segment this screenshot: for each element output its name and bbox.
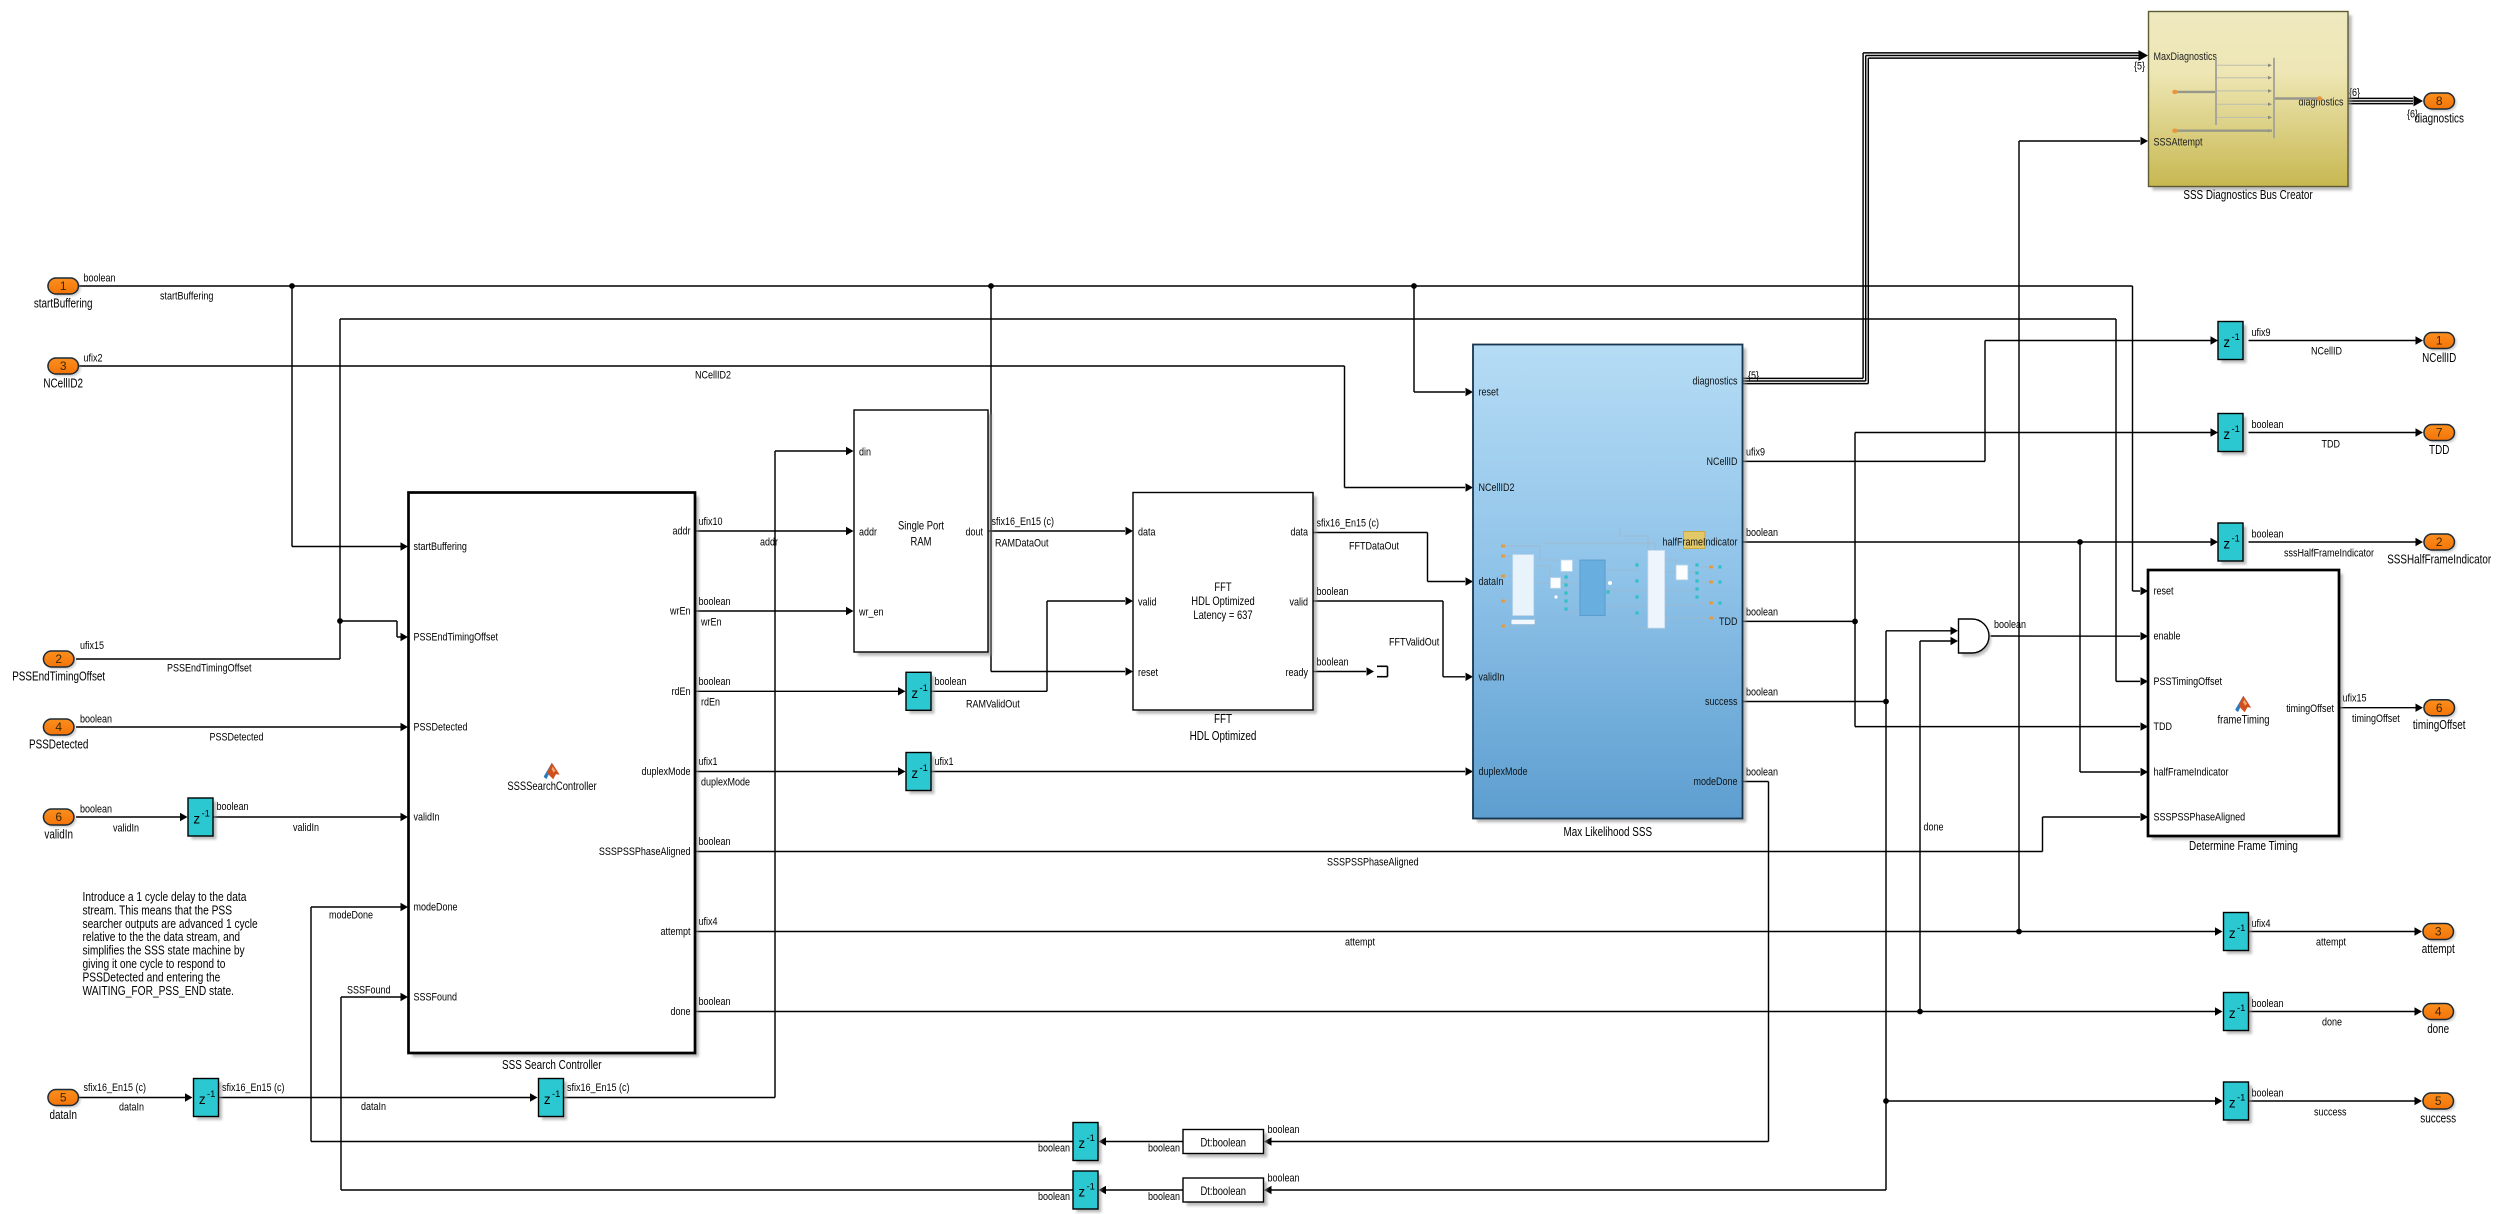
svg-text:6: 6 xyxy=(2436,701,2443,715)
svg-text:wrEn: wrEn xyxy=(669,606,690,618)
svg-text:z: z xyxy=(2223,537,2230,552)
svg-text:SSSPSSPhaseAligned: SSSPSSPhaseAligned xyxy=(2154,812,2246,824)
svg-text:boolean: boolean xyxy=(1268,1173,1300,1185)
svg-text:boolean: boolean xyxy=(2252,1088,2284,1100)
svg-text:ufix9: ufix9 xyxy=(1746,446,1765,458)
svg-text:NCellID: NCellID xyxy=(1707,456,1738,468)
svg-text:ufix15: ufix15 xyxy=(80,640,104,652)
wire duplexMode from delay to Max Likelihood SSS xyxy=(931,767,1473,775)
wire done from SSS Search Controller to delay and AND gate xyxy=(695,637,2223,1016)
wire RAMValidOut from delay to FFT valid xyxy=(931,597,1133,692)
svg-text:dataIn: dataIn xyxy=(49,1108,77,1122)
svg-text:WAITING_FOR_PSS_END state.: WAITING_FOR_PSS_END state. xyxy=(83,983,235,998)
wire startBuffering net from Inport 1 xyxy=(79,286,2148,676)
svg-text:reset: reset xyxy=(1479,387,1500,399)
svg-text:2: 2 xyxy=(2436,535,2443,549)
svg-text:3: 3 xyxy=(60,359,67,373)
svg-text:Determine Frame Timing: Determine Frame Timing xyxy=(2189,839,2298,853)
svg-text:modeDone: modeDone xyxy=(414,902,458,914)
wire NCellID from MLS to delay xyxy=(1743,336,2219,461)
wire PSSEndTimingOffset from Inport 2 xyxy=(76,319,2148,686)
svg-text:boolean: boolean xyxy=(2252,419,2284,431)
svg-text:NCellID: NCellID xyxy=(2311,346,2342,358)
svg-text:wr_en: wr_en xyxy=(858,607,883,619)
svg-text:valid: valid xyxy=(1138,597,1157,609)
svg-text:1: 1 xyxy=(60,279,67,293)
svg-text:boolean: boolean xyxy=(935,676,967,688)
Outport 7 TDD xyxy=(2424,425,2457,458)
svg-text:halfFrameIndicator: halfFrameIndicator xyxy=(1663,537,1738,549)
wire from first Dt:boolean to its delay xyxy=(1099,1137,1184,1145)
svg-text:sfix16_En15 (c): sfix16_En15 (c) xyxy=(992,516,1055,528)
svg-text:sfix16_En15 (c): sfix16_En15 (c) xyxy=(567,1082,630,1094)
svg-text:5: 5 xyxy=(2435,1094,2442,1108)
svg-text:FFTValidOut: FFTValidOut xyxy=(1389,637,1440,649)
svg-text:sssHalfFrameIndicator: sssHalfFrameIndicator xyxy=(2284,548,2374,560)
svg-text:boolean: boolean xyxy=(1746,527,1778,539)
junction halfFrameIndicator branch xyxy=(2077,539,2083,545)
svg-text:PSSDetected: PSSDetected xyxy=(29,738,88,752)
svg-text:boolean: boolean xyxy=(84,273,116,285)
svg-text:ufix9: ufix9 xyxy=(2252,327,2271,339)
svg-text:boolean: boolean xyxy=(1148,1143,1180,1155)
svg-text:3: 3 xyxy=(2435,925,2442,939)
svg-text:Single Port: Single Port xyxy=(898,519,945,533)
svg-text:z: z xyxy=(2229,1006,2236,1021)
svg-text:addr: addr xyxy=(859,527,877,539)
svg-text:enable: enable xyxy=(2154,631,2181,643)
delay on rdEn (RAMValidOut) xyxy=(909,676,934,714)
delay 2 on dataIn xyxy=(542,1082,567,1120)
svg-text:SSSFound: SSSFound xyxy=(414,992,458,1004)
svg-text:boolean: boolean xyxy=(699,596,731,608)
svg-text:SSS Diagnostics Bus Creator: SSS Diagnostics Bus Creator xyxy=(2183,188,2312,202)
subsystem Determine Frame Timing xyxy=(2148,570,2343,840)
svg-text:sfix16_En15 (c): sfix16_En15 (c) xyxy=(222,1082,285,1094)
wire modeDone from MLS to Dt:boolean feedback xyxy=(1264,782,1769,1146)
wire dataIn from second delay up to RAM din xyxy=(564,447,854,1098)
svg-text:boolean: boolean xyxy=(1317,586,1349,598)
delay on attempt xyxy=(2227,916,2252,954)
delay on modeDone feedback xyxy=(1076,1126,1101,1164)
svg-text:diagnostics: diagnostics xyxy=(1693,376,1738,388)
delay on success xyxy=(2227,1085,2252,1123)
svg-text:-1: -1 xyxy=(2237,1093,2245,1104)
svg-text:validIn: validIn xyxy=(414,812,440,824)
Outport 5 success xyxy=(2420,1093,2456,1126)
svg-text:halfFrameIndicator: halfFrameIndicator xyxy=(2154,767,2229,779)
svg-text:FFT: FFT xyxy=(1214,580,1231,594)
wire from AND gate to Determine Frame Timing enable xyxy=(1991,632,2149,640)
svg-text:FFT: FFT xyxy=(1214,712,1232,726)
delay on TDD xyxy=(2221,417,2246,455)
svg-text:boolean: boolean xyxy=(1746,687,1778,699)
block Dt:boolean (modeDone data type conversion) xyxy=(1183,1130,1267,1158)
delay on SSSFound feedback xyxy=(1076,1174,1101,1212)
svg-text:duplexMode: duplexMode xyxy=(1479,766,1528,778)
svg-text:{5}: {5} xyxy=(1748,370,1759,382)
svg-text:din: din xyxy=(859,447,871,459)
wire attempt from SSS Search Controller to delay and SSS Diagnostics Bus Creator xyxy=(695,137,2223,936)
svg-text:PSSEndTimingOffset: PSSEndTimingOffset xyxy=(414,632,499,644)
delay on validIn xyxy=(191,801,216,839)
wire validIn from Inport 6 to delay xyxy=(76,813,188,821)
Outport 8 diagnostics xyxy=(2414,93,2464,126)
svg-text:boolean: boolean xyxy=(2252,998,2284,1010)
svg-text:7: 7 xyxy=(2436,426,2443,440)
wire success from delay to Outport 5 xyxy=(2249,1097,2423,1105)
svg-text:SSSSearchController: SSSSearchController xyxy=(507,779,596,793)
svg-text:done: done xyxy=(1924,822,1944,834)
wire NCellID2 from Inport 3 to Max Likelihood SSS xyxy=(79,366,1473,492)
svg-text:-1: -1 xyxy=(207,1089,215,1100)
svg-text:z: z xyxy=(2229,926,2236,941)
svg-text:FFTDataOut: FFTDataOut xyxy=(1349,541,1400,553)
Outport 3 attempt xyxy=(2422,924,2456,957)
svg-text:TDD: TDD xyxy=(2154,721,2173,733)
svg-text:rdEn: rdEn xyxy=(701,697,720,709)
junction TDD branch xyxy=(1852,619,1858,625)
svg-text:attempt: attempt xyxy=(2316,937,2347,949)
wire from second Dt:boolean to its delay xyxy=(1099,1186,1184,1194)
svg-text:ufix15: ufix15 xyxy=(2343,693,2367,705)
svg-text:boolean: boolean xyxy=(1746,606,1778,618)
svg-text:-1: -1 xyxy=(2237,923,2245,934)
svg-text:attempt: attempt xyxy=(1345,937,1376,949)
svg-text:data: data xyxy=(1138,527,1156,539)
svg-text:SSSPSSPhaseAligned: SSSPSSPhaseAligned xyxy=(599,846,691,858)
svg-text:-1: -1 xyxy=(2231,424,2239,435)
wire addr from SSS Search Controller to RAM xyxy=(695,527,854,535)
svg-text:Max Likelihood SSS: Max Likelihood SSS xyxy=(1564,825,1653,839)
wire dataIn from Inport 5 to first delay xyxy=(79,1093,193,1101)
svg-text:boolean: boolean xyxy=(1038,1191,1070,1203)
svg-text:MaxDiagnostics: MaxDiagnostics xyxy=(2154,51,2218,63)
svg-text:z: z xyxy=(2229,1096,2236,1111)
svg-text:z: z xyxy=(1078,1185,1085,1200)
delay on sssHalfFrameIndicator xyxy=(2221,526,2246,564)
svg-text:NCellID2: NCellID2 xyxy=(695,370,731,382)
svg-text:dataIn: dataIn xyxy=(361,1101,386,1113)
block Single Port RAM xyxy=(854,410,992,656)
svg-text:timingOffset: timingOffset xyxy=(2286,703,2334,715)
svg-text:NCellID2: NCellID2 xyxy=(43,377,83,391)
Inport 2 PSSEndTimingOffset xyxy=(12,651,105,684)
svg-text:HDL Optimized: HDL Optimized xyxy=(1191,594,1254,608)
Outport 4 done xyxy=(2423,1004,2456,1037)
Inport 3 NCellID2 xyxy=(43,358,83,391)
wire done from delay to Outport 4 xyxy=(2249,1007,2423,1015)
svg-text:success: success xyxy=(1705,696,1738,708)
svg-text:success: success xyxy=(2420,1112,2456,1126)
junction success at AND branch xyxy=(1883,699,1889,705)
svg-text:PSSDetected: PSSDetected xyxy=(414,722,468,734)
wire RAMDataOut from RAM dout to FFT data xyxy=(988,527,1133,535)
svg-text:done: done xyxy=(671,1006,691,1018)
svg-text:rdEn: rdEn xyxy=(672,686,691,698)
wire duplexMode from SSS Search Controller to delay xyxy=(695,767,906,775)
svg-text:z: z xyxy=(199,1092,206,1107)
svg-text:boolean: boolean xyxy=(217,801,249,813)
svg-text:ufix1: ufix1 xyxy=(699,756,718,768)
svg-text:-1: -1 xyxy=(2237,1003,2245,1014)
svg-text:SSS Search Controller: SSS Search Controller xyxy=(502,1058,602,1072)
delay on duplexMode xyxy=(909,756,934,794)
svg-text:-1: -1 xyxy=(1086,1133,1094,1144)
svg-text:wrEn: wrEn xyxy=(700,617,721,629)
svg-text:NCellID2: NCellID2 xyxy=(1479,482,1515,494)
wire validIn from delay to SSS Search Controller xyxy=(213,813,408,821)
junction attempt branch to SSSAttempt xyxy=(2016,929,2022,935)
svg-text:startBuffering: startBuffering xyxy=(160,291,213,303)
svg-text:boolean: boolean xyxy=(80,714,112,726)
bus wire diagnostics from Max Likelihood SSS to SSS Diagnostics Bus Creator xyxy=(1743,50,2149,384)
svg-text:Dt:boolean: Dt:boolean xyxy=(1200,1136,1246,1150)
svg-text:-1: -1 xyxy=(2231,534,2239,545)
block Dt:boolean (SSSFound data type conversion) xyxy=(1183,1178,1267,1206)
junction startBuffering at SSS branch xyxy=(289,283,295,289)
delay on done xyxy=(2227,996,2252,1034)
junction startBuffering at FFT-reset branch xyxy=(988,283,994,289)
block SSS Diagnostics Bus Creator xyxy=(2149,12,2352,191)
svg-text:HDL Optimized: HDL Optimized xyxy=(1190,729,1257,743)
svg-text:duplexMode: duplexMode xyxy=(701,777,750,789)
svg-text:{5}: {5} xyxy=(2134,60,2145,72)
svg-text:6: 6 xyxy=(55,810,62,824)
svg-text:ufix4: ufix4 xyxy=(699,916,718,928)
svg-text:attempt: attempt xyxy=(661,926,692,938)
Outport 6 timingOffset xyxy=(2413,700,2466,733)
delay 1 on dataIn xyxy=(197,1082,222,1120)
wire NCellID from delay to Outport 1 xyxy=(2249,336,2424,344)
wire halfFrameIndicator from MLS to delay and Determine Frame Timing xyxy=(1743,538,2219,776)
svg-text:-1: -1 xyxy=(919,763,927,774)
Inport 6 validIn xyxy=(43,809,75,842)
svg-text:4: 4 xyxy=(55,720,62,734)
svg-text:done: done xyxy=(2427,1022,2449,1036)
subsystem SSS Search Controller xyxy=(409,493,699,1057)
bus creator icon inside SSS Diagnostics Bus Creator xyxy=(2172,58,2322,139)
svg-text:-1: -1 xyxy=(2231,332,2239,343)
wire rdEn from SSS Search Controller to delay xyxy=(695,687,906,695)
svg-text:done: done xyxy=(2322,1017,2342,1029)
wire FFTDataOut from FFT data to MLS dataIn xyxy=(1313,533,1473,586)
svg-text:ufix4: ufix4 xyxy=(2252,918,2271,930)
svg-text:startBuffering: startBuffering xyxy=(414,541,467,553)
svg-text:1: 1 xyxy=(2436,334,2443,348)
svg-text:z: z xyxy=(1078,1136,1085,1151)
svg-text:dataIn: dataIn xyxy=(119,1102,144,1114)
junction startBuffering at MLS-reset branch xyxy=(1411,283,1417,289)
svg-text:boolean: boolean xyxy=(1746,767,1778,779)
svg-text:addr: addr xyxy=(760,537,778,549)
bus wire diagnostics from Bus Creator to Outport 8 xyxy=(2348,96,2423,107)
svg-text:z: z xyxy=(193,812,200,827)
svg-text:PSSEndTimingOffset: PSSEndTimingOffset xyxy=(167,663,252,675)
svg-text:5: 5 xyxy=(60,1091,67,1105)
highlight box on halfFrameIndicator label xyxy=(1684,532,1706,549)
svg-text:startBuffering: startBuffering xyxy=(34,297,93,311)
junction success at Outport branch xyxy=(1883,1098,1889,1104)
svg-text:duplexMode: duplexMode xyxy=(642,766,691,778)
svg-text:validIn: validIn xyxy=(44,828,73,842)
Outport 2 SSSHalfFrameIndicator xyxy=(2387,534,2491,567)
wire sssHalfFrameIndicator from delay to Outport 2 xyxy=(2249,538,2424,546)
svg-text:SSSFound: SSSFound xyxy=(347,985,391,997)
svg-text:dout: dout xyxy=(966,527,984,539)
wire FFTValidOut from FFT valid to MLS validIn xyxy=(1313,601,1473,681)
wire PSSDetected from Inport 4 to SSS Search Controller xyxy=(76,723,408,731)
block FFT HDL Optimized xyxy=(1133,493,1317,714)
svg-text:-1: -1 xyxy=(919,683,927,694)
annotation text about 1 cycle delay xyxy=(83,889,258,998)
svg-text:boolean: boolean xyxy=(1317,657,1349,669)
svg-text:sfix16_En15 (c): sfix16_En15 (c) xyxy=(84,1082,147,1094)
delay on NCellID xyxy=(2221,325,2246,363)
svg-text:z: z xyxy=(2223,427,2230,442)
wire TDD from delay to Outport 7 xyxy=(2249,428,2424,436)
wire ready from FFT to terminator xyxy=(1313,667,1374,675)
terminator on FFT ready xyxy=(1377,666,1388,676)
svg-text:boolean: boolean xyxy=(80,804,112,816)
svg-text:boolean: boolean xyxy=(2252,529,2284,541)
svg-text:validIn: validIn xyxy=(113,823,139,835)
wire modeDone from delay to SSS Search Controller xyxy=(311,903,1073,1142)
svg-text:addr: addr xyxy=(673,526,691,538)
svg-text:timingOffset: timingOffset xyxy=(2352,713,2400,725)
svg-text:diagnostics: diagnostics xyxy=(2414,112,2464,126)
svg-text:PSSDetected: PSSDetected xyxy=(210,732,264,744)
wire dataIn from first delay to second delay xyxy=(219,1093,538,1101)
svg-text:ufix10: ufix10 xyxy=(699,516,723,528)
svg-text:boolean: boolean xyxy=(1148,1191,1180,1203)
Inport 5 dataIn xyxy=(48,1090,80,1123)
wire wrEn from SSS Search Controller to RAM wr_en xyxy=(695,607,854,615)
svg-text:SSSPSSPhaseAligned: SSSPSSPhaseAligned xyxy=(1327,857,1419,869)
wire success from MLS to AND gate, delay, Outport 5 and Dt:boolean feedback xyxy=(1264,627,2223,1195)
Outport 1 NCellID xyxy=(2422,333,2456,366)
svg-text:NCellID: NCellID xyxy=(2422,351,2456,365)
svg-text:ufix2: ufix2 xyxy=(84,353,103,365)
svg-text:attempt: attempt xyxy=(2422,942,2455,956)
svg-text:Latency = 637: Latency = 637 xyxy=(1193,608,1253,622)
svg-text:z: z xyxy=(911,766,918,781)
AND logical operator gate xyxy=(1959,619,1992,657)
svg-text:4: 4 xyxy=(2435,1005,2442,1019)
svg-text:-1: -1 xyxy=(552,1089,560,1100)
svg-text:PSSEndTimingOffset: PSSEndTimingOffset xyxy=(12,670,105,684)
svg-text:validIn: validIn xyxy=(293,822,319,834)
wire SSSPSSPhaseAligned from SSS Search Controller to Determine Frame Timing xyxy=(695,813,2148,852)
svg-text:RAM: RAM xyxy=(911,535,932,549)
Inport 4 PSSDetected xyxy=(29,719,88,752)
svg-text:sfix16_En15 (c): sfix16_En15 (c) xyxy=(1317,518,1380,530)
svg-text:TDD: TDD xyxy=(2429,443,2449,457)
svg-text:ready: ready xyxy=(1286,667,1309,679)
wire attempt from delay to Outport 3 xyxy=(2249,927,2423,935)
svg-text:boolean: boolean xyxy=(699,676,731,688)
svg-text:z: z xyxy=(2223,335,2230,350)
svg-text:TDD: TDD xyxy=(2322,439,2341,451)
svg-text:ufix1: ufix1 xyxy=(935,756,954,768)
svg-text:success: success xyxy=(2314,1107,2347,1119)
svg-text:RAMDataOut: RAMDataOut xyxy=(995,538,1049,550)
svg-text:Dt:boolean: Dt:boolean xyxy=(1200,1184,1246,1198)
svg-text:8: 8 xyxy=(2436,94,2443,108)
wire TDD from MLS to delay and Determine Frame Timing xyxy=(1743,428,2219,731)
svg-text:reset: reset xyxy=(1138,667,1159,679)
svg-text:reset: reset xyxy=(2154,586,2175,598)
svg-text:boolean: boolean xyxy=(1038,1143,1070,1155)
svg-text:timingOffset: timingOffset xyxy=(2413,718,2466,732)
svg-text:-1: -1 xyxy=(1086,1182,1094,1193)
svg-text:boolean: boolean xyxy=(1994,619,2026,631)
junction done branch to AND gate xyxy=(1917,1009,1923,1015)
svg-text:TDD: TDD xyxy=(1719,616,1738,628)
svg-text:RAMValidOut: RAMValidOut xyxy=(966,699,1020,711)
svg-text:dataIn: dataIn xyxy=(1479,576,1504,588)
svg-text:-1: -1 xyxy=(201,809,209,820)
svg-text:z: z xyxy=(544,1092,551,1107)
svg-text:SSSHalfFrameIndicator: SSSHalfFrameIndicator xyxy=(2387,553,2491,567)
subsystem Max Likelihood SSS xyxy=(1473,345,1746,823)
svg-text:frameTiming: frameTiming xyxy=(2218,713,2270,727)
junction PSSEndTimingOffset branch to SSS xyxy=(337,618,343,624)
svg-text:valid: valid xyxy=(1290,597,1309,609)
svg-text:SSSAttempt: SSSAttempt xyxy=(2154,137,2204,149)
wire SSSFound from delay to SSS Search Controller xyxy=(341,993,1073,1190)
port labels Max Likelihood SSS outputs xyxy=(1663,376,1738,789)
svg-text:modeDone: modeDone xyxy=(1694,776,1738,788)
svg-text:boolean: boolean xyxy=(1268,1124,1300,1136)
svg-text:boolean: boolean xyxy=(699,996,731,1008)
wire timingOffset from Determine Frame Timing to Outport 6 xyxy=(2339,704,2423,712)
svg-text:data: data xyxy=(1291,527,1309,539)
svg-text:validIn: validIn xyxy=(1479,671,1505,683)
svg-text:2: 2 xyxy=(55,652,62,666)
svg-text:boolean: boolean xyxy=(699,836,731,848)
svg-text:PSSTimingOffset: PSSTimingOffset xyxy=(2154,676,2223,688)
svg-text:modeDone: modeDone xyxy=(329,910,373,922)
inner preview image of Max Likelihood SSS xyxy=(1501,527,1722,628)
svg-text:z: z xyxy=(911,686,918,701)
Inport 1 startBuffering xyxy=(34,278,93,311)
